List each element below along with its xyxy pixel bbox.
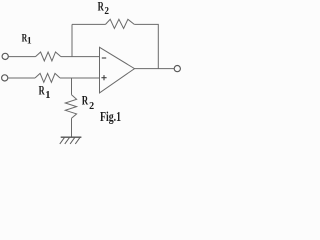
input terminal 1 (open circle, inverting path) bbox=[2, 53, 8, 59]
wire R2 to ground bbox=[71, 118, 73, 137]
label R2 (grounded) bbox=[82, 93, 95, 112]
ground bbox=[60, 137, 82, 144]
wire op-amp output bbox=[135, 68, 175, 70]
resistor R2 (feedback) bbox=[106, 19, 135, 28]
label R1 (top) bbox=[22, 32, 32, 46]
svg-text:Fig.1: Fig.1 bbox=[100, 109, 121, 124]
wire feedback vertical (junction at inverting input up to top rail) bbox=[71, 24, 73, 56]
resistor R1 (top) bbox=[36, 52, 61, 61]
op-amp non-inverting input marker (+) bbox=[101, 75, 106, 80]
wire input2 to R1 bottom bbox=[8, 77, 35, 79]
wire top rail right segment and drop to output bbox=[134, 24, 158, 68]
label R1 (bottom) bbox=[39, 84, 51, 101]
label R2 (feedback) bbox=[98, 0, 110, 17]
resistor R2 (to ground, vertical) bbox=[65, 95, 76, 118]
wire top rail left segment bbox=[72, 23, 106, 25]
svg-text:1: 1 bbox=[45, 90, 50, 101]
output terminal (open circle) bbox=[174, 66, 180, 72]
op-amp inverting input marker (-) bbox=[102, 57, 106, 59]
svg-text:R: R bbox=[82, 93, 89, 107]
wire input1 to R1 top bbox=[8, 56, 35, 58]
input terminal 2 (open circle, non-inverting path) bbox=[2, 75, 8, 81]
svg-text:1: 1 bbox=[27, 37, 32, 47]
op-amp U1 (triangle) bbox=[100, 47, 135, 93]
svg-text:2: 2 bbox=[89, 100, 94, 112]
wire R1 bottom to op-amp non-inverting input bbox=[60, 77, 100, 79]
svg-text:R: R bbox=[98, 0, 105, 13]
wire R1 top to op-amp inverting input bbox=[61, 56, 100, 58]
svg-text:2: 2 bbox=[104, 5, 109, 17]
wire branch down to grounded R2 bbox=[71, 78, 73, 95]
resistor R1 (bottom) bbox=[35, 73, 60, 82]
